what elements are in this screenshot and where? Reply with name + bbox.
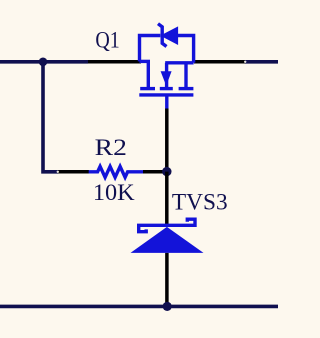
TVS3 cathode bar with hooks xyxy=(139,219,195,232)
Q1 body arrow xyxy=(161,71,172,86)
pin hotspot Q1 source xyxy=(244,61,246,63)
pin Q1 gate (black, down to junction) xyxy=(165,109,169,172)
Q1 source leg xyxy=(184,63,187,89)
Q1 gate electrode xyxy=(139,93,193,96)
wire left vertical with elbow to R2 xyxy=(43,62,58,172)
pin Q1 source (right, black) xyxy=(194,60,245,64)
junction dot top-left xyxy=(39,58,48,67)
resistor R2 xyxy=(89,166,143,177)
wire top-left rail xyxy=(0,60,88,64)
pin R2 left (black) xyxy=(58,170,89,174)
transistor Q1 (N-MOSFET, gate down) xyxy=(139,24,193,109)
Q1 body-diode loop left edge xyxy=(140,36,161,62)
Q1 body-diode triangle xyxy=(164,29,177,42)
TVS3 anode triangle xyxy=(131,227,204,253)
svg-text:R2: R2 xyxy=(95,135,127,160)
pin R2 right (black) xyxy=(143,170,167,174)
svg-text:Q1: Q1 xyxy=(95,27,119,52)
Q1 body stub xyxy=(165,63,168,88)
pin TVS3 anode (black) xyxy=(165,253,169,307)
svg-text:10K: 10K xyxy=(93,180,135,205)
Q1 channel bar left xyxy=(140,87,155,90)
Q1 drain leg xyxy=(147,61,150,88)
Q1 channel bar right xyxy=(179,87,194,90)
wire bottom rail xyxy=(0,305,278,309)
junction dot bottom xyxy=(163,302,172,311)
Q1 gate stub xyxy=(165,95,168,109)
Q1 source inner segment xyxy=(165,61,193,64)
Q1 channel bar middle xyxy=(160,87,173,90)
wire top-right rail xyxy=(245,60,278,64)
pin Q1 drain (left, black) xyxy=(88,60,141,64)
Q1 drain jog xyxy=(140,60,151,63)
junction dot middle xyxy=(162,167,171,176)
pin hotspot R2 left xyxy=(57,171,59,173)
diode TVS3 xyxy=(131,219,204,253)
Q1 body-diode zener cathode xyxy=(158,24,167,47)
pin TVS3 cathode (black, junction down to diode) xyxy=(165,172,169,225)
Q1 body-diode loop right edge xyxy=(176,36,193,63)
svg-text:TVS3: TVS3 xyxy=(172,190,228,215)
